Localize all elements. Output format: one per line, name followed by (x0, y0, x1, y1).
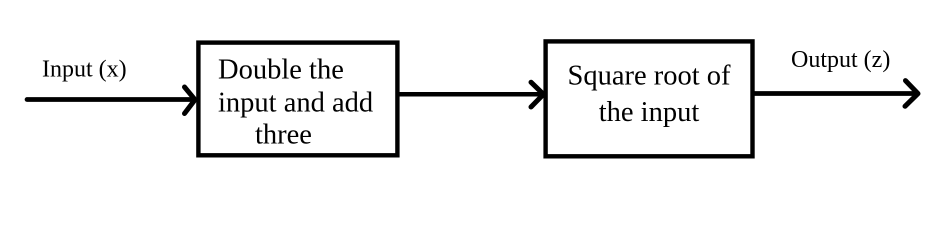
svg-text:Square root of: Square root of (567, 61, 731, 92)
wire input arrow shaft (27, 97, 194, 102)
wire arrow B1 to B2 arrowhead (531, 82, 544, 107)
svg-text:input and add: input and add (218, 88, 373, 119)
svg-text:Output (z): Output (z) (791, 47, 890, 73)
wire output arrowhead (905, 81, 918, 107)
block B1: Double the input and add three (198, 43, 397, 156)
svg-text:three: three (255, 120, 312, 151)
wire input arrowhead (185, 87, 196, 114)
block B2: Square root of the input (546, 41, 753, 156)
svg-text:the input: the input (599, 97, 700, 128)
wire output arrow shaft (753, 91, 916, 96)
svg-text:Double the: Double the (218, 55, 344, 86)
wire arrow B1 to B2 shaft (398, 92, 541, 97)
svg-text:Input (x): Input (x) (42, 57, 127, 83)
